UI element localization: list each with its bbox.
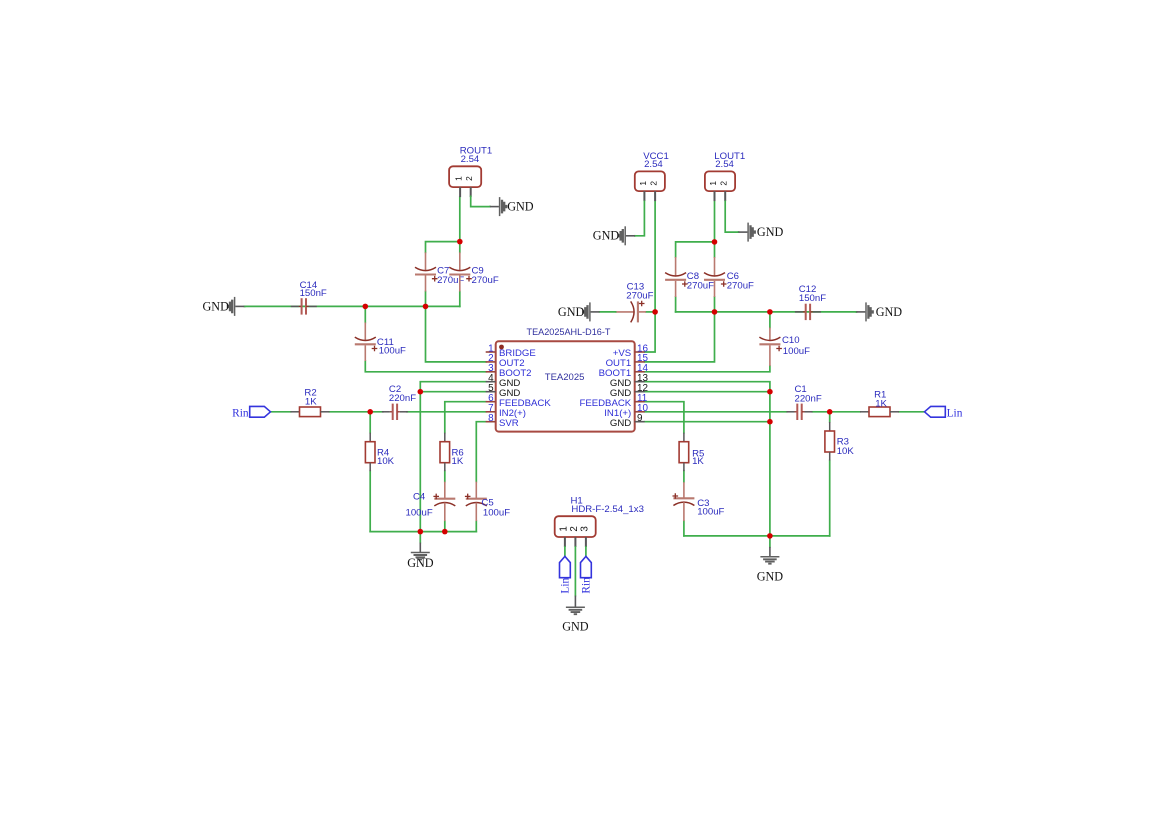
junction at 420.3,391.7 [418,389,424,395]
svg-text:GND: GND [757,569,784,583]
wire: R3 bottom to rail [829,461,831,536]
svg-text:100uF: 100uF [405,507,432,518]
svg-text:TEA2025: TEA2025 [545,372,585,383]
junction at 370.2,411.8 [367,409,373,415]
wire: pin12 GND to vertical [645,391,770,393]
port flag Lin (H1 pin1) [560,556,571,577]
junction at 769.9,391.7 [767,389,773,395]
IC pin 5 GND [486,391,496,393]
svg-text:1: 1 [638,181,648,186]
wire: R2 to C2 through junction [330,411,383,413]
svg-text:1K: 1K [305,397,317,408]
ground GND at C14 [243,305,246,307]
IC pin 1 BRIDGE [486,351,496,353]
svg-text:270uF: 270uF [687,280,714,291]
svg-text:SVR: SVR [499,418,519,429]
wire: left GND rail [370,531,476,533]
svg-text:150nF: 150nF [799,293,826,304]
IC pin 10 IN1(+) [635,411,645,413]
svg-text:Lin: Lin [559,577,571,593]
IC U1 TEA2025 body [496,341,635,431]
IC pin 12 GND [635,391,645,393]
wire: C3 bottom to rail [683,521,685,536]
wire: C5 bottom to rail [475,521,477,532]
IC pin 7 IN2(+) [486,411,496,413]
svg-text:1: 1 [454,176,464,181]
wire: C10 top from bus [769,312,771,328]
resistor R1 1K [860,411,869,413]
svg-text:Rin: Rin [580,577,592,594]
wire: pin16 +VS up to VCC1 pin2 [645,201,655,352]
wire: C2 to pin7 IN2(+) [407,411,486,413]
wire: node to C8 top branch [676,242,715,257]
wire: node to C7 top branch [426,242,460,253]
svg-text:GND: GND [876,305,903,319]
svg-text:10K: 10K [377,456,395,467]
wire: pin5 GND to vertical [420,391,485,393]
connector VCC1 [635,171,665,191]
junction at 459.8,241.6 [457,239,463,245]
wire: pin13 GND right and down [645,382,770,536]
svg-text:2: 2 [719,181,729,186]
IC pin 8 SVR [486,421,496,423]
capacitor C3 100uF [683,482,685,498]
svg-text:1: 1 [558,526,569,531]
svg-text:GND: GND [558,305,585,319]
IC pin 15 OUT1 [635,361,645,363]
svg-text:GND: GND [562,620,589,634]
capacitor C2 220nF [382,411,390,413]
capacitor C11 100uF [364,323,366,341]
svg-text:100uF: 100uF [697,507,724,518]
IC pin 9 GND [635,421,645,423]
svg-text:270uF: 270uF [727,280,754,291]
IC pin1 marker dot [499,345,504,350]
resistor R2 1K [291,411,300,413]
svg-text:Rin: Rin [232,407,249,419]
port flag Rin [250,406,271,417]
wire: pin10 IN1(+) to C1 [645,411,787,413]
junction at 365.3,306.4 [363,304,369,310]
svg-text:2.54: 2.54 [461,154,480,165]
IC pin 4 GND [486,381,496,383]
junction at 769.9,421.7 [767,419,773,425]
wire: R5 bottom to C3 top [683,471,685,482]
svg-text:HDR-F-2.54_1x3: HDR-F-2.54_1x3 [571,504,644,515]
svg-text:1: 1 [708,181,718,186]
svg-text:270uF: 270uF [472,275,499,286]
svg-text:GND: GND [757,225,784,239]
svg-text:270uF: 270uF [626,291,653,302]
resistor R5 1K [683,433,685,442]
wire: pin15 OUT1 to bus vertical [645,312,715,362]
wire: R6 bottom to C4 top [444,471,446,482]
IC pin 16 +VS [635,351,645,353]
wire: pin9 GND to vertical [645,421,770,423]
port flag Lin [925,406,946,417]
ground GND at C12 [855,311,857,313]
connector ROUT1 [449,166,481,187]
junction at 420.3,531.6 [418,529,424,535]
svg-text:150nF: 150nF [300,288,327,299]
wire: pin8 SVR to C5 column [476,422,485,482]
capacitor C13 270uF [616,311,634,313]
svg-text:GND: GND [507,199,534,213]
wire: C6 bottom to bus [714,297,716,312]
wire C7 bottom to bus [425,292,427,307]
svg-text:9: 9 [637,413,643,424]
wire: C11 bottom to pin3 BOOT2 [365,361,485,372]
svg-text:C4: C4 [413,491,426,502]
junction at 655.1,311.9 [652,309,658,315]
wire: C8 bottom to bus [675,297,677,312]
wire: OUT1 bus horizontal [676,311,857,313]
IC pin 3 BOOT2 [486,371,496,373]
capacitor C14 150nF [291,305,299,307]
svg-text:2: 2 [569,526,580,531]
connector LOUT1 [705,171,735,191]
svg-text:GND: GND [407,556,434,570]
junction at 714.5,241.9 [712,239,718,245]
svg-text:220nF: 220nF [389,393,416,404]
ground GND below left rail [419,532,421,543]
svg-text:C10: C10 [782,335,800,346]
wire: R4 top from junction [369,412,371,433]
capacitor C5 100uF [475,482,477,499]
svg-text:1K: 1K [875,398,887,409]
junction at 714.5,311.9 [712,309,718,315]
ground GND below right rail [769,536,771,547]
ground GND at C13 [600,311,616,313]
capacitor C4 100uF [444,482,446,499]
wire: C10 bottom to pin14 BOOT1 [645,366,770,372]
wire: C1 to R1 through junction [813,411,861,413]
wire: pin11 FEEDBACK to R5 column [645,402,684,433]
capacitor C10 100uF [769,328,771,341]
wire: pin6 FEEDBACK to R6 column [445,402,486,433]
wire: Rin to R2 [271,411,291,413]
svg-text:2: 2 [464,176,474,181]
IC pin 14 BOOT1 [635,371,645,373]
ground GND below H1 (with pin2 stem wire) [574,547,576,596]
wire: OUT2 bus (pin2 net) horizontal [245,305,460,307]
svg-text:100uF: 100uF [783,346,810,357]
wire: C11 top from bus [364,306,366,322]
svg-text:2: 2 [649,181,659,186]
resistor R4 10K [369,433,371,442]
wire: LOUT1 pin1 down to node [714,201,716,257]
junction at 829.7,411.8 [827,409,833,415]
resistor R3 10K [829,422,831,431]
svg-text:220nF: 220nF [795,393,822,404]
wire: LOUT1 pin2 to GND [725,201,738,232]
svg-text:100uF: 100uF [483,507,510,518]
ground GND at VCC1 [634,235,636,237]
IC pin 11 FEEDBACK [635,401,645,403]
resistor R6 1K [444,433,446,442]
IC pin 6 FEEDBACK [486,401,496,403]
junction at 425.5,306.4 [423,304,429,310]
svg-text:GND: GND [202,300,229,314]
wire: ROUT1 pin1 down to node [459,197,461,252]
wire: pin4 GND left and down [420,382,485,532]
wire: OUT2 bus vertical to C9 / ROUT1 pin1 [459,292,461,307]
capacitor C9 270uF [459,252,461,270]
svg-text:Lin: Lin [947,407,963,419]
svg-text:8: 8 [488,413,494,424]
capacitor C8 270uF [675,257,677,276]
wire: H1 pin3 to Rin flag [585,547,587,556]
wire: R1 to Lin port [899,411,925,413]
junction at 769.9,535.9 [767,533,773,539]
svg-text:TEA2025AHL-D16-T: TEA2025AHL-D16-T [527,327,611,337]
port flag Rin (H1 pin3) [581,556,592,577]
IC pin 2 OUT2 [486,361,496,363]
ground GND at LOUT1 [737,231,739,233]
junction at 444.8,531.6 [442,529,448,535]
capacitor C6 270uF [714,257,716,276]
wire: bus down to pin2 OUT2 [426,306,486,362]
capacitor C7 270uF [425,252,427,270]
wire: H1 pin1 to Lin flag [564,547,566,556]
capacitor C12 150nF [795,311,803,313]
svg-text:1K: 1K [692,456,704,467]
connector H1 [555,516,596,537]
svg-text:3: 3 [579,526,590,532]
junction at 769.9,311.9 [767,309,773,315]
svg-text:GND: GND [593,229,620,243]
wire: R4 bottom to rail [369,471,371,532]
wire: C13 junction on VCC vertical [646,311,655,313]
svg-text:2.54: 2.54 [644,159,663,170]
wire: right GND rail [684,535,830,537]
svg-text:GND: GND [610,418,631,429]
wire: VCC1 pin1 to GND [635,201,645,236]
wire: R3 top from junction [829,412,831,422]
wire: ROUT1 pin2 to GND [471,196,490,206]
svg-text:1K: 1K [452,456,464,467]
capacitor C1 220nF [787,411,795,413]
wire: C4 bottom to rail [444,521,446,532]
svg-text:100uF: 100uF [379,346,406,357]
svg-text:10K: 10K [837,446,855,457]
ground GND at ROUT1 [489,206,491,208]
svg-text:2.54: 2.54 [715,159,734,170]
IC pin 13 GND [635,381,645,383]
